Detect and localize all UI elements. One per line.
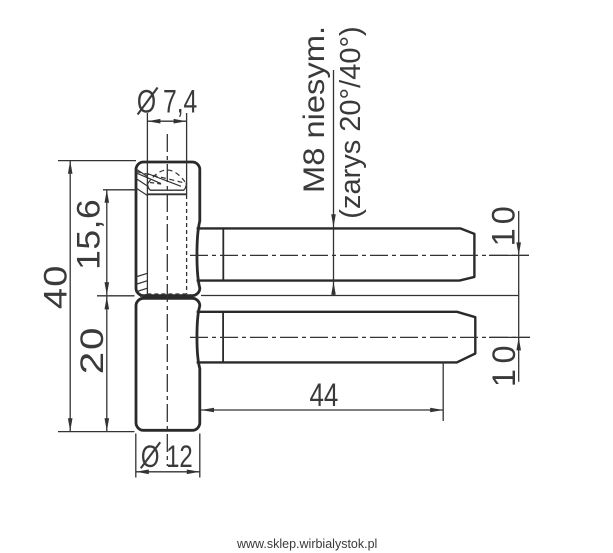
thread tilted dashed arc [136, 172, 187, 184]
section hatch top-left [136, 169, 147, 177]
hinge lower body (cylinder with neck fillet at pin) [136, 298, 200, 430]
hinge upper body (cylinder with neck fillet at pin) [136, 162, 200, 296]
countersink seat line [147, 193, 186, 195]
label 10 lower rotated [486, 340, 522, 387]
upper pin collar line [222, 228, 224, 280]
M8 leader line [333, 70, 335, 296]
label 10 upper rotated [485, 202, 521, 246]
upper pin centerline [190, 254, 529, 256]
arrow 15,6 down [105, 282, 110, 295]
dim 15,6 line [106, 190, 108, 295]
arrow 20 down [105, 418, 110, 431]
drill cone solid line 2 [147, 174, 181, 187]
arrow 40 up [68, 161, 73, 174]
arrow dia12 left [136, 470, 149, 475]
dim dia 12 ext right [199, 434, 201, 478]
ext line 15,6 top [103, 189, 136, 191]
arrow dia7,4 left [147, 119, 160, 124]
svg-text:44: 44 [309, 377, 338, 413]
arrow M8 up at pin bottom [331, 282, 336, 295]
lower pin centerline ext at dim [489, 336, 530, 338]
arrow dia7,4 right [174, 119, 187, 124]
dim dia 12 line [136, 471, 200, 473]
hole right ext line (solid upper part) [186, 113, 188, 195]
thread dome dashed arc [147, 170, 186, 184]
svg-text:40: 40 [38, 264, 74, 309]
vertical axis centerline [166, 134, 168, 466]
label 15,6 rotated [71, 199, 107, 270]
dim 20 line [106, 296, 108, 431]
lower pin centerline [190, 336, 530, 338]
dim 40 line [69, 161, 71, 431]
section hatch bottom-left [136, 273, 148, 277]
dim dia 7,4 line [147, 120, 186, 122]
label dia 12 [141, 439, 193, 474]
arrow 40 down [68, 418, 73, 431]
label 40 rotated [38, 264, 74, 309]
drill cone solid line 1 [135, 172, 161, 183]
svg-text:15,6: 15,6 [71, 199, 107, 270]
label 20 rotated [74, 326, 110, 375]
separation extension line left [97, 295, 135, 297]
hole bottom hidden line [147, 293, 186, 295]
svg-text:(zarys 20°/40°): (zarys 20°/40°) [335, 26, 367, 218]
svg-text:M8 niesym.: M8 niesym. [297, 26, 330, 193]
svg-text:10: 10 [486, 340, 522, 387]
label (zarys 20/40) rotated [335, 26, 367, 218]
ext line 40 top [58, 160, 136, 162]
dim dia 12 ext left [135, 434, 137, 478]
svg-text:20: 20 [74, 326, 110, 375]
arrow 44 left [201, 408, 214, 413]
arrow 10 lower up [516, 337, 521, 350]
arrow 15,6 up [105, 190, 110, 203]
ext line 40/20 bottom [58, 431, 135, 433]
arrow 10 upper down [516, 242, 521, 255]
svg-text:www.sklep.wirbialystok.pl: www.sklep.wirbialystok.pl [236, 537, 377, 551]
hole left line / ext line for dia 7,4 [146, 113, 148, 294]
label 44 [309, 377, 338, 413]
thread dashed short arc [150, 183, 163, 185]
dim 10 shared vertical line [518, 211, 520, 382]
arrow 20 up [105, 296, 110, 309]
svg-text:10: 10 [485, 202, 521, 246]
label M8 niesym. rotated [297, 26, 330, 193]
hole right hidden line (dashed) [186, 195, 188, 294]
arrow M8 down at pin top [331, 214, 336, 227]
upper pin outline [197, 228, 475, 280]
upper pin centerline ext at dim [489, 254, 529, 256]
dim 44 line [201, 409, 443, 411]
separation extension line right [201, 295, 519, 297]
lower pin outline [197, 312, 476, 363]
arrow dia12 right [187, 470, 200, 475]
arrow 44 right [430, 408, 443, 413]
label dia 7,4 [137, 85, 197, 121]
countersink flat line [150, 189, 184, 191]
ext line 44 right [442, 362, 444, 422]
countersink right rim arc [184, 183, 187, 190]
countersink left rim arc [147, 184, 150, 191]
lower pin collar line [222, 312, 224, 363]
